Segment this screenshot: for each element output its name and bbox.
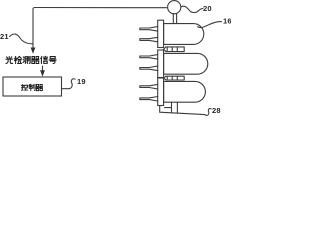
svg-text:19: 19 (77, 77, 86, 86)
svg-text:20: 20 (203, 4, 212, 13)
svg-text:28: 28 (212, 106, 221, 115)
svg-text:16: 16 (223, 17, 231, 26)
svg-text:21: 21 (0, 32, 9, 41)
